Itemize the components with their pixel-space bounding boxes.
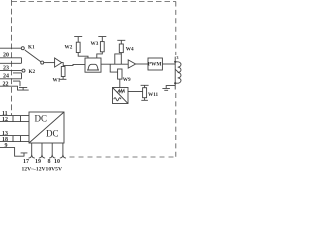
terminal line 22 to ground (0, 86, 29, 90)
enclosure dashed border top (12, 1, 176, 3)
enclosure dashed border bottom (70, 156, 177, 158)
junction dot bottom (174, 82, 176, 84)
sawtooth box diagonal (113, 88, 129, 104)
winding loop 2 (0, 73, 22, 79)
op-amp U1 buffer (55, 58, 62, 67)
resistor W2 (76, 42, 80, 52)
svg-text:W1: W1 (53, 77, 61, 83)
DC/DC converter box (29, 112, 64, 143)
enclosure dashed border right upper (175, 2, 177, 158)
resistor W1 (61, 67, 65, 77)
svg-text:K1: K1 (28, 44, 35, 50)
svg-text:20: 20 (3, 52, 9, 58)
transformer primary vertical wire (174, 57, 176, 90)
sine wave glyph (114, 98, 121, 101)
supply tick over W2 (74, 37, 82, 43)
resistor W3 (100, 42, 104, 52)
svg-text:W9: W9 (123, 77, 131, 83)
terminal line 18 (0, 141, 29, 143)
svg-text:12: 12 (2, 117, 8, 123)
wire sawtooth box to W11 (128, 91, 143, 93)
svg-text:12V~-12V10V5V: 12V~-12V10V5V (22, 166, 63, 172)
terminal line 13 (0, 135, 29, 137)
resistor W9 (118, 69, 122, 79)
svg-text:19: 19 (35, 159, 41, 165)
DC/DC output terminal 17 (29, 143, 35, 158)
transformer T1 winding (175, 62, 178, 83)
terminal line 11 (0, 115, 29, 117)
terminal line 12 (0, 121, 29, 123)
svg-text:K2: K2 (29, 69, 36, 75)
chassis ground tick upper-left (19, 87, 27, 90)
svg-text:23: 23 (3, 65, 9, 71)
wire buffer to PWM (136, 63, 148, 65)
svg-text:24: 24 (3, 74, 9, 80)
supply tick over W11 (141, 85, 149, 87)
resistor W4 (119, 44, 123, 53)
winding loop 3 (13, 81, 20, 86)
wire pole to op-amp (44, 62, 55, 64)
wire op-amp output (62, 63, 64, 67)
svg-text:W3: W3 (91, 41, 99, 47)
transistor emitter tick (175, 69, 179, 72)
wire under W11 (141, 98, 148, 101)
svg-text:PWM: PWM (148, 62, 162, 68)
svg-text:3: 3 (176, 55, 178, 60)
DC/DC diagonal (29, 112, 64, 143)
wire W4 to main line (120, 53, 122, 65)
supply tick over W3 (98, 37, 106, 42)
wire function box to buffer (101, 63, 128, 65)
switch K1 contact circle (21, 47, 24, 50)
DC/DC output terminal 8 (49, 143, 55, 158)
svg-text:9: 9 (5, 143, 8, 149)
wire W2 to function box top (78, 53, 88, 59)
switch pole circle (41, 61, 44, 64)
svg-text:17: 17 (23, 159, 29, 165)
terminal line 23/K2 (0, 70, 22, 72)
svg-text:W4: W4 (126, 47, 134, 53)
wire W1 to ground bar (62, 77, 64, 80)
sawtooth wave glyph (118, 90, 125, 93)
limiter dome curve (87, 64, 99, 70)
wire PWM to transformer (162, 63, 175, 65)
enclosure dashed border left (11, 0, 13, 115)
svg-text:10: 10 (54, 159, 60, 165)
PWM block box (148, 58, 162, 70)
winding loop 1 (0, 58, 22, 64)
svg-text:W2: W2 (65, 45, 73, 51)
chassis ground tick lower-left (21, 153, 28, 156)
svg-text:DC: DC (46, 129, 59, 139)
svg-text:DC: DC (35, 114, 48, 124)
svg-text:8: 8 (48, 159, 51, 165)
svg-text:W11: W11 (148, 92, 158, 98)
op-amp U3 buffer (128, 60, 135, 68)
wire W9 to sawtooth box (119, 79, 121, 87)
DC/DC output terminal 10 (60, 143, 66, 158)
switch K2 contact circle (22, 69, 25, 72)
ground right (162, 88, 170, 90)
junction dot top (174, 61, 176, 63)
wire W3 to function box top (97, 52, 103, 58)
winding ladder legs upper (13, 116, 21, 122)
wire main line to function box (63, 64, 85, 65)
DC/DC output terminal 19 (39, 143, 45, 158)
sawtooth generator box (113, 88, 129, 104)
supply tick over W4 (117, 40, 125, 44)
winding ladder legs lower (13, 136, 21, 142)
wire winding to ground (166, 86, 175, 89)
wire W4 parallel branch (115, 54, 122, 65)
function block U2 (limiter) box (85, 58, 101, 72)
switch blade (25, 50, 41, 62)
terminal line 9 to chassis (0, 148, 24, 157)
resistor W11 (143, 88, 147, 98)
wire main line to W9 (110, 64, 117, 72)
ground bar under W1 (60, 78, 67, 80)
terminal line 20 (0, 47, 21, 49)
svg-text:22: 22 (3, 81, 9, 87)
